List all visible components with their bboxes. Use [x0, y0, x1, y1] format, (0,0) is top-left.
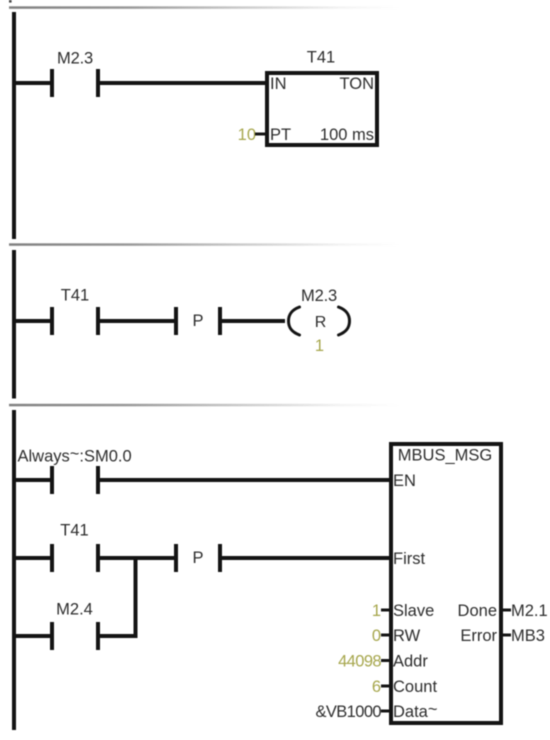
svg-text:1: 1: [315, 337, 324, 355]
wire P to coil: [222, 319, 285, 323]
svg-text:Slave: Slave: [393, 602, 434, 620]
contact Always_On SM0.0: [50, 466, 100, 494]
svg-text:T41: T41: [61, 287, 89, 305]
svg-text:Count: Count: [393, 678, 437, 696]
svg-text:44098: 44098: [338, 653, 381, 671]
svg-text:RW: RW: [393, 627, 421, 645]
left power rail network 3: [12, 410, 16, 730]
svg-text:MBUS_MSG: MBUS_MSG: [398, 447, 492, 465]
contact M2.4: [14, 601, 101, 651]
svg-text:M2.3: M2.3: [301, 287, 337, 305]
svg-text:IN: IN: [270, 75, 287, 93]
svg-text:1: 1: [372, 602, 381, 620]
tick Data~ input: [381, 710, 391, 713]
function box MBUS_MSG: [391, 444, 501, 723]
svg-text:EN: EN: [393, 472, 416, 490]
wire rail to contact SM0.0: [14, 478, 51, 482]
svg-text:R: R: [315, 314, 327, 331]
svg-text:M2.3: M2.3: [57, 50, 93, 68]
wire P to First input: [222, 556, 391, 560]
svg-text:P: P: [192, 549, 203, 567]
previous-network rail stub: [9, 0, 12, 3]
svg-text:0: 0: [372, 627, 381, 645]
contact M2.3: [50, 50, 100, 98]
svg-text:&VB1000: &VB1000: [315, 703, 381, 721]
network separator 2: [9, 243, 400, 246]
left power rail network 2: [12, 250, 16, 399]
tick RW input: [381, 634, 391, 637]
svg-text:Addr: Addr: [393, 653, 428, 671]
contact T41: [50, 287, 100, 336]
wire T41 to P contact: [100, 319, 174, 323]
svg-text:100 ms: 100 ms: [320, 126, 374, 144]
timer box T41 TON: [267, 73, 377, 145]
tick Addr input: [381, 659, 391, 662]
contact T41 (network 3): [14, 522, 101, 573]
wire SM0.0 to EN input: [100, 478, 391, 482]
wire rail to contact M2.3: [14, 81, 51, 85]
svg-text:Done: Done: [458, 602, 497, 620]
tick Count input: [381, 685, 391, 688]
network separator 1: [9, 6, 400, 9]
svg-text:Data~: Data~: [393, 701, 438, 722]
contact P (positive edge): [174, 307, 222, 335]
wire M2.4 to branch: [100, 634, 138, 638]
tick Error output: [503, 634, 511, 637]
svg-text:MB3: MB3: [511, 627, 545, 645]
svg-text:10: 10: [238, 126, 256, 144]
svg-text:M2.1: M2.1: [511, 602, 548, 620]
left power rail network 1: [12, 12, 16, 239]
coil M2.3 (R) reset: [289, 287, 350, 335]
wire contact M2.3 to timer box: [100, 81, 267, 85]
network separator 3: [9, 404, 400, 407]
svg-text:First: First: [393, 550, 425, 568]
branch wire junction: [134, 556, 138, 638]
svg-text:M2.4: M2.4: [56, 601, 93, 619]
tick Slave input: [381, 609, 391, 612]
svg-text:6: 6: [372, 678, 381, 696]
svg-text:TON: TON: [339, 75, 374, 93]
svg-text:Error: Error: [460, 627, 497, 645]
svg-text:T41: T41: [307, 49, 335, 67]
svg-text:P: P: [192, 312, 203, 330]
tick Done output: [503, 609, 511, 612]
svg-text:T41: T41: [60, 522, 88, 540]
tick PT input: [255, 133, 265, 136]
wire rail to contact T41: [14, 319, 51, 323]
svg-text:Always~:SM0.0: Always~:SM0.0: [18, 445, 132, 466]
svg-text:PT: PT: [270, 126, 291, 144]
wire T41 to P contact: [100, 556, 174, 560]
contact P (network 3): [174, 544, 222, 572]
